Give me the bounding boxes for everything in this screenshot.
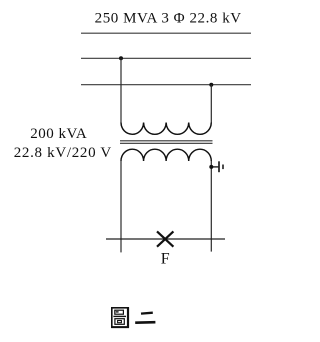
- transformer T1 secondary winding: [121, 149, 211, 161]
- wire: bus 2 down to primary: [210, 85, 212, 123]
- svg-text:250 MVA 3 Φ 22.8 kV: 250 MVA 3 Φ 22.8 kV: [95, 11, 242, 27]
- transformer T1 primary winding: [121, 123, 211, 135]
- wire: label underline / source bus top line: [81, 32, 251, 34]
- node: junction dot on bus 2: [209, 83, 213, 87]
- wire: bus 1 down to primary: [120, 58, 122, 122]
- caption character: Er (two) drawn glyph: [135, 313, 155, 323]
- ground symbol: short bar: [222, 165, 224, 170]
- caption character: Tu (figure) drawn glyph: [111, 307, 129, 328]
- fault symbol X at point F: [157, 231, 173, 246]
- svg-text:200 kVA: 200 kVA: [30, 126, 87, 142]
- wire: bus 1: [81, 57, 251, 59]
- wire: secondary right leg: [210, 161, 212, 252]
- wire: bus 2: [81, 84, 251, 86]
- wire: secondary left leg: [120, 161, 122, 252]
- wire: ground tap: [211, 166, 218, 168]
- wire: secondary bottom feeder line: [106, 238, 225, 240]
- svg-text:F: F: [161, 250, 170, 267]
- node: junction dot at secondary neutral tap: [209, 165, 213, 169]
- transformer T1 core (double bar): [120, 140, 213, 142]
- node: junction dot on bus 1: [119, 56, 123, 60]
- svg-text:22.8 kV/220 V: 22.8 kV/220 V: [14, 145, 112, 161]
- ground symbol: long bar: [218, 161, 220, 172]
